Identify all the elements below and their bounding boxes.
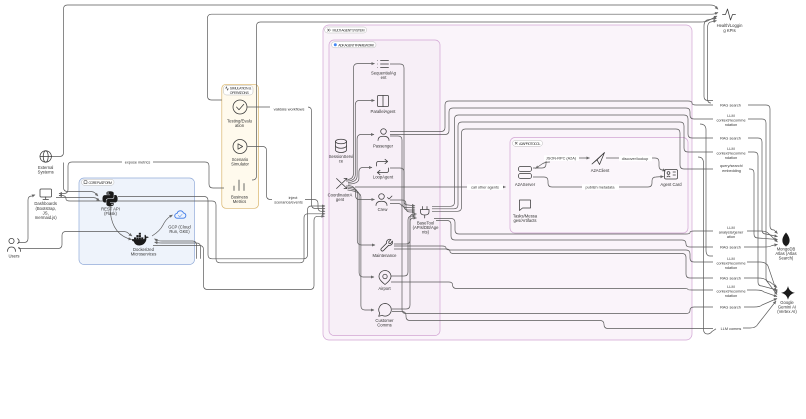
svg-text:RAG search: RAG search (720, 277, 741, 281)
svg-text:Airport: Airport (378, 286, 391, 291)
svg-text:JSON-RPC (A2A): JSON-RPC (A2A) (546, 157, 577, 161)
svg-text:Agent Card: Agent Card (660, 182, 682, 187)
svg-text:Simulator: Simulator (231, 161, 249, 166)
svg-text:ce: ce (339, 159, 344, 164)
svg-text:LLM: LLM (727, 147, 734, 151)
svg-text:nts): nts) (422, 230, 430, 235)
svg-text:ation: ation (235, 123, 245, 128)
svg-text:ation: ation (727, 235, 735, 239)
svg-text:ParallelAgent: ParallelAgent (371, 109, 397, 114)
svg-text:ges/Artifacts: ges/Artifacts (513, 218, 536, 223)
svg-text:context/recomme: context/recomme (716, 152, 745, 156)
svg-text:ndation: ndation (725, 123, 737, 127)
svg-text:gent: gent (336, 197, 345, 202)
svg-text:LLM: LLM (727, 257, 734, 261)
svg-text:ndation: ndation (725, 294, 737, 298)
svg-text:A2A PROTOCOL: A2A PROTOCOL (519, 142, 541, 146)
svg-text:LLM: LLM (727, 226, 734, 230)
svg-text:RAG search: RAG search (720, 104, 741, 108)
svg-text:ndation: ndation (725, 266, 737, 270)
svg-text:RAG search: RAG search (720, 306, 741, 310)
svg-text:LLM: LLM (727, 114, 734, 118)
svg-text:Users: Users (9, 254, 20, 259)
svg-text:discover/lookup: discover/lookup (622, 157, 648, 161)
svg-text:ndation: ndation (725, 156, 737, 160)
svg-text:LLM comms: LLM comms (721, 327, 742, 331)
svg-text:Run, GKE): Run, GKE) (169, 229, 190, 234)
svg-text:expose metrics: expose metrics (125, 160, 151, 164)
svg-text:Microservices: Microservices (131, 252, 157, 257)
svg-text:LLM: LLM (727, 285, 734, 289)
svg-text:validate workflows: validate workflows (274, 108, 305, 112)
svg-text:OPERATIONS: OPERATIONS (230, 91, 250, 95)
svg-text:publish metadata: publish metadata (586, 186, 616, 190)
svg-text:scenarios/events: scenarios/events (274, 201, 303, 205)
svg-text:RAG search: RAG search (720, 137, 741, 141)
svg-text:context/recomme: context/recomme (716, 119, 745, 123)
svg-text:Systems: Systems (38, 170, 54, 175)
svg-text:context/recomme: context/recomme (716, 290, 745, 294)
svg-text:inject: inject (289, 196, 299, 200)
svg-text:mermaid.js): mermaid.js) (35, 215, 57, 220)
svg-text:Search): Search) (779, 256, 794, 261)
svg-text:ent: ent (381, 75, 388, 80)
svg-text:RAG search: RAG search (720, 246, 741, 250)
svg-text:Comms: Comms (377, 322, 391, 327)
svg-text:g KPIs: g KPIs (723, 28, 735, 33)
svg-text:Crew: Crew (378, 207, 389, 212)
svg-text:(Flask): (Flask) (104, 211, 117, 216)
svg-text:Metrics: Metrics (233, 199, 247, 204)
svg-text:Passenger: Passenger (373, 144, 394, 149)
svg-text:context/recomme: context/recomme (716, 262, 745, 266)
svg-text:query/search/: query/search/ (720, 164, 744, 168)
svg-text:(Vertex AI): (Vertex AI) (777, 309, 797, 314)
svg-text:A2AServer: A2AServer (515, 182, 536, 187)
svg-text:ADK AGENT FRAMEWORK: ADK AGENT FRAMEWORK (338, 43, 375, 47)
svg-text:embedding: embedding (722, 169, 741, 173)
svg-text:A2AClient: A2AClient (591, 168, 610, 173)
svg-text:call other agents: call other agents (471, 186, 499, 190)
svg-text:MULTI-AGENT SYSTEM: MULTI-AGENT SYSTEM (333, 29, 365, 33)
svg-text:CORE PLATFORM: CORE PLATFORM (89, 181, 113, 185)
svg-text:LoopAgent: LoopAgent (373, 175, 394, 180)
svg-text:analysis/gener: analysis/gener (719, 231, 744, 235)
svg-text:Maintenance: Maintenance (373, 253, 398, 258)
